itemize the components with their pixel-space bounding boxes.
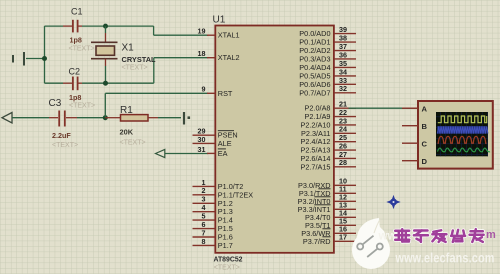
svg-text:1p8: 1p8 <box>70 35 82 44</box>
text placeholder U1 <box>214 264 240 271</box>
svg-text:EA: EA <box>218 149 228 158</box>
svg-text:XTAL1: XTAL1 <box>218 31 240 40</box>
pin 9 RST <box>202 85 233 98</box>
pin 15 P3.5/T1 <box>305 217 356 230</box>
pin 14 P3.4/T0 <box>305 209 356 222</box>
value 1p8 (C2) <box>69 93 81 102</box>
svg-text:P2.7/A15: P2.7/A15 <box>300 162 330 171</box>
pin 28 P2.7/A15 <box>300 158 356 171</box>
capacitor C1 <box>63 20 82 33</box>
svg-text:AT89C52: AT89C52 <box>214 257 243 264</box>
pin 3 P1.2 <box>193 195 233 208</box>
label C3 <box>49 98 62 109</box>
svg-text:<TEXT>: <TEXT> <box>122 64 148 71</box>
wire XTAL1 top rail <box>45 26 209 35</box>
pin 19 XTAL1 <box>198 27 240 40</box>
pin 6 P1.5 <box>193 220 233 233</box>
pin 7 P1.6 <box>193 228 233 241</box>
wire R1 to power <box>158 117 181 119</box>
pin 36 P0.3/AD3 <box>299 50 356 63</box>
pin 25 P2.4/A12 <box>300 133 356 146</box>
svg-text:RST: RST <box>218 89 233 98</box>
pin 8 P1.7 <box>193 237 233 250</box>
pin 17 P3.7/RD <box>303 233 356 246</box>
text placeholder X1 <box>122 64 148 71</box>
svg-text:20K: 20K <box>120 127 134 136</box>
svg-text:1p8: 1p8 <box>69 93 81 102</box>
capacitor C3 <box>49 111 77 127</box>
svg-text:30: 30 <box>198 135 206 144</box>
power terminal <box>184 112 190 125</box>
svg-text:C3: C3 <box>49 98 62 109</box>
label R1 <box>120 105 133 116</box>
text placeholder C3 <box>52 142 78 149</box>
pin 32 P0.7/AD7 <box>299 84 356 97</box>
pin 24 P2.3/A11 <box>301 125 356 138</box>
svg-text:<TEXT>: <TEXT> <box>69 46 95 53</box>
value 2.2uF <box>52 131 71 140</box>
wire EA <box>165 153 208 155</box>
text placeholder C2 <box>69 103 95 110</box>
pin 10 P3.0/RXD <box>298 177 356 190</box>
pin 4 P1.3 <box>193 203 233 216</box>
scope input B <box>402 122 428 131</box>
wire left rail <box>44 26 46 83</box>
node C (crystal bottom) <box>103 81 108 86</box>
pin 35 P0.4/AD4 <box>299 59 356 72</box>
pin 5 P1.4 <box>193 212 233 225</box>
svg-text:XTAL2: XTAL2 <box>218 53 240 62</box>
waveform channel C (red) <box>438 136 487 143</box>
crystal X1 <box>91 42 118 58</box>
wire crystal top <box>105 26 107 42</box>
svg-text:9: 9 <box>202 85 206 94</box>
oscilloscope screen <box>436 112 488 156</box>
svg-text:C: C <box>422 139 428 148</box>
svg-text:CRYSTAL: CRYSTAL <box>122 55 157 64</box>
node D (RST junction) <box>103 115 108 120</box>
svg-text:2.2uF: 2.2uF <box>52 131 71 140</box>
svg-text:28: 28 <box>339 158 347 167</box>
pin 21 P2.0/A8 <box>305 100 356 113</box>
svg-text:8: 8 <box>202 237 206 246</box>
svg-text:P3.7/RD: P3.7/RD <box>303 237 331 246</box>
svg-text:P1.7: P1.7 <box>218 241 233 250</box>
svg-text:C2: C2 <box>69 67 81 77</box>
svg-text:17: 17 <box>339 233 347 242</box>
svg-text:B: B <box>422 122 428 131</box>
label U1 <box>213 15 226 26</box>
op-amp U1 body (AT89C52 MCU) <box>215 26 334 253</box>
pin 13 P3.3/INT1 <box>298 201 356 214</box>
pin 26 P2.5/A13 <box>300 141 356 154</box>
wire P2.0 to scope A <box>349 107 418 109</box>
svg-text:18: 18 <box>198 49 206 58</box>
svg-text:<TEXT>: <TEXT> <box>214 264 240 271</box>
terminal arrow (C3 input) <box>2 113 12 123</box>
pin 12 P3.2/INT0 <box>298 193 356 206</box>
wire XTAL2 bottom rail <box>45 58 209 83</box>
svg-text:X1: X1 <box>122 43 135 54</box>
pin 33 P0.6/AD6 <box>299 76 356 89</box>
label C1 <box>71 7 83 17</box>
svg-text:C1: C1 <box>71 7 83 17</box>
pin 29 PSEN <box>193 127 238 140</box>
svg-text:32: 32 <box>339 84 347 93</box>
text placeholder R1 <box>120 139 146 146</box>
pin 18 XTAL2 <box>198 49 240 62</box>
terminal arrow (EA) <box>156 149 165 157</box>
waveform channel A (square) <box>438 116 487 123</box>
svg-text:<TEXT>: <TEXT> <box>120 139 146 146</box>
watermark text CJK <box>378 229 497 243</box>
capacitor C2 <box>63 77 82 91</box>
scope input C <box>402 139 428 148</box>
pin 38 P0.1/AD1 <box>299 33 356 46</box>
waveform channel B (dense) <box>437 126 488 134</box>
wire crystal bottom <box>105 59 107 83</box>
wire C3 left <box>12 117 49 119</box>
svg-text:U1: U1 <box>213 15 226 26</box>
svg-text:A: A <box>422 104 428 113</box>
svg-text:P0.7/AD7: P0.7/AD7 <box>299 88 330 97</box>
pin 30 ALE <box>193 135 232 148</box>
pin 39 P0.0/AD0 <box>299 25 356 38</box>
svg-text:ALE: ALE <box>218 139 232 148</box>
svg-text:<TEXT>: <TEXT> <box>52 142 78 149</box>
scope input D <box>402 157 428 166</box>
svg-text:D: D <box>422 157 428 166</box>
text placeholder C1 <box>69 46 95 53</box>
origin marker <box>388 196 399 207</box>
pin 23 P2.2/A10 <box>300 116 356 129</box>
watermark logo <box>352 218 390 269</box>
resistor R1 <box>105 115 158 121</box>
node A (C1/ground rail) <box>42 56 47 61</box>
pin 2 P1.1/T2EX <box>193 186 254 199</box>
pin 22 P2.1/A9 <box>305 108 356 121</box>
label X1 <box>122 43 135 54</box>
pin 1 P1.0/T2 <box>193 178 244 191</box>
node B (crystal top) <box>103 24 108 29</box>
pin 27 P2.6/A14 <box>300 150 356 163</box>
value 20K <box>120 127 134 136</box>
ground <box>13 52 45 66</box>
wire C3 to node <box>77 117 105 119</box>
waveform channel D (green) <box>438 148 491 152</box>
svg-text:<TEXT>: <TEXT> <box>69 103 95 110</box>
label AT89C52 <box>214 257 243 264</box>
pin 37 P0.2/AD2 <box>299 42 356 55</box>
wire RST riser <box>105 93 208 117</box>
watermark url <box>395 250 495 266</box>
label C2 <box>69 67 81 77</box>
pin 31 EA <box>198 145 228 158</box>
pin 11 P3.1/TXD <box>299 185 356 198</box>
svg-text:31: 31 <box>198 145 206 154</box>
svg-text:www.elecfans.com: www.elecfans.com <box>395 250 495 266</box>
pin 16 P3.6/WR <box>301 225 356 238</box>
value CRYSTAL <box>122 55 157 64</box>
pin 34 P0.5/AD5 <box>299 67 356 80</box>
svg-text:R1: R1 <box>120 105 133 116</box>
value 1p8 (C1) <box>70 35 82 44</box>
oscilloscope body <box>418 101 493 169</box>
scope input A <box>402 104 428 113</box>
svg-text:19: 19 <box>198 27 206 36</box>
svg-text:m: m <box>486 229 496 241</box>
